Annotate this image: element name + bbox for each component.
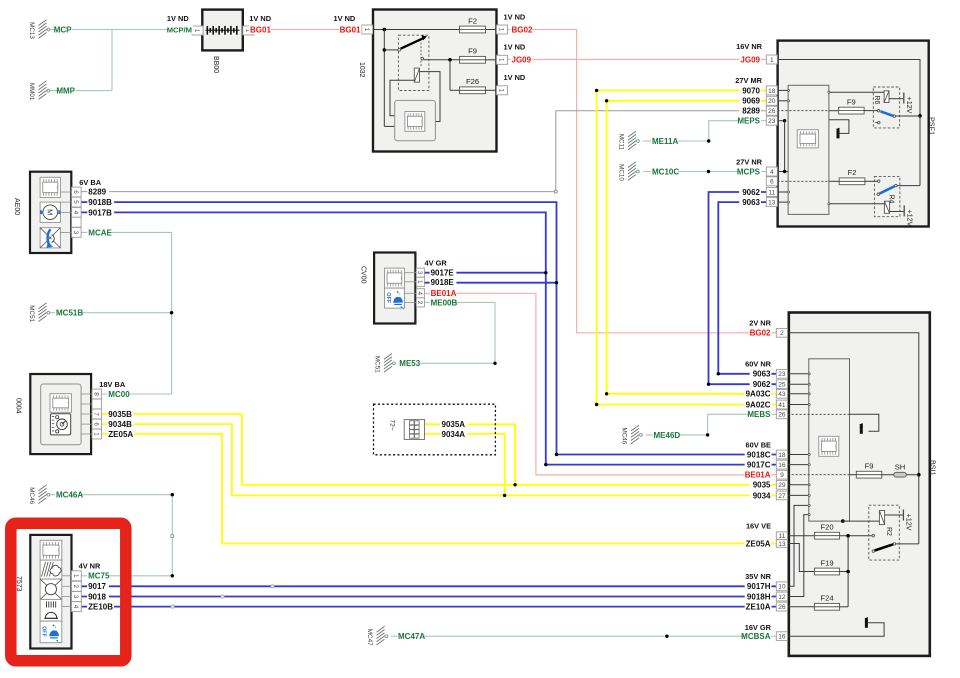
pin stubs AE00 bbox=[60, 192, 71, 232]
svg-text:2V NR: 2V NR bbox=[749, 319, 771, 328]
pins 18,16,9,29,27 BSI1 bbox=[776, 450, 787, 459]
svg-text:9017E: 9017E bbox=[431, 269, 455, 278]
svg-text:60V NR: 60V NR bbox=[745, 360, 772, 369]
svg-text:MC51: MC51 bbox=[374, 356, 381, 373]
wire PSF1 pin1 rail bbox=[777, 60, 922, 186]
svg-text:9062: 9062 bbox=[742, 188, 760, 197]
svg-text:ME00B: ME00B bbox=[431, 298, 458, 307]
wire 9018B / 9018E / 9018C net bbox=[81, 202, 776, 456]
ground MM01 bbox=[28, 81, 50, 101]
net label 8289 (AE00 side) bbox=[87, 187, 109, 196]
svg-text:1V ND: 1V ND bbox=[504, 43, 526, 52]
svg-text:9018: 9018 bbox=[88, 592, 106, 601]
wire 9035B / 9035A / 9035 net to BSI1 pin29 bbox=[101, 414, 776, 486]
svg-text:MC13: MC13 bbox=[28, 22, 35, 39]
tag 1V ND (JG09) bbox=[504, 43, 526, 52]
svg-text:MC10C: MC10C bbox=[652, 167, 679, 176]
svg-text:MC46: MC46 bbox=[28, 487, 35, 504]
wires BSI1 left pins to module bbox=[788, 373, 811, 497]
svg-text:JG09: JG09 bbox=[512, 56, 532, 65]
wire PSF1 pin26 dashed to F9 bbox=[777, 110, 838, 112]
svg-text:MMP: MMP bbox=[56, 87, 75, 96]
svg-text:11: 11 bbox=[768, 189, 775, 196]
wire 8289 AE00 pin6 to PSF1 pin26 bbox=[81, 111, 766, 193]
net label 9035 bbox=[750, 480, 772, 489]
net label ZE05A (0004 side) bbox=[107, 430, 134, 439]
tag 18V BA (0004) bbox=[99, 380, 126, 389]
svg-text:1V ND: 1V ND bbox=[504, 13, 526, 22]
pin 1 PSF1 bbox=[766, 55, 777, 64]
pins 11,13 BSI1 bbox=[776, 532, 787, 540]
net label MC47A bbox=[397, 632, 424, 641]
net label MCP bbox=[56, 25, 73, 34]
wire 9062 PSF1 pin11 to BSI1 pin25 bbox=[707, 192, 777, 386]
ground internal BSI1 lower bbox=[788, 618, 885, 637]
net label ME46D bbox=[653, 431, 680, 440]
body control unit BSI1 bbox=[789, 313, 938, 656]
ground MC10 bbox=[618, 162, 640, 182]
auto-off car symbol 7573 bbox=[40, 621, 62, 643]
svg-text:OFF: OFF bbox=[41, 626, 47, 637]
instrument panel 0004 bbox=[15, 374, 91, 454]
connector body 72 bbox=[404, 420, 424, 440]
svg-text:18V BA: 18V BA bbox=[99, 380, 126, 389]
flap actuator symbol AE00 bbox=[40, 228, 60, 248]
svg-text:1: 1 bbox=[92, 432, 99, 436]
svg-text:MCP: MCP bbox=[54, 25, 72, 34]
svg-text:ZE10A: ZE10A bbox=[746, 603, 771, 612]
net label MCBSA bbox=[745, 632, 772, 641]
fuse F26 bbox=[460, 77, 486, 94]
pin 1 1032 input bbox=[362, 25, 373, 34]
pin 16 BSI1 bbox=[776, 632, 787, 641]
wire F2 output to BG02 pin bbox=[486, 29, 497, 31]
svg-text:9035B: 9035B bbox=[108, 410, 132, 419]
net label MCPS bbox=[739, 167, 761, 176]
wire ME00B / ME53 ground net bbox=[399, 302, 497, 365]
svg-text:MCBSA: MCBSA bbox=[741, 632, 771, 641]
svg-text:F9: F9 bbox=[847, 97, 856, 106]
svg-text:ME46D: ME46D bbox=[654, 431, 681, 440]
svg-text:8: 8 bbox=[92, 392, 99, 396]
net label 9A03C bbox=[745, 389, 772, 398]
pin stubs CV00 bbox=[404, 273, 416, 303]
svg-text:9018E: 9018E bbox=[431, 278, 455, 287]
svg-text:5: 5 bbox=[72, 200, 79, 204]
svg-text:1V ND: 1V ND bbox=[334, 14, 356, 23]
wire MC46A / MC75 ground net bbox=[47, 493, 175, 578]
svg-text:BG02: BG02 bbox=[512, 25, 533, 34]
svg-text:F2: F2 bbox=[468, 16, 477, 25]
net label MC51B bbox=[55, 308, 82, 317]
net label 9A02C bbox=[745, 400, 772, 409]
tag 1V ND (F26 out) bbox=[504, 73, 526, 82]
pins 23,25,43,41,26 BSI1 bbox=[776, 369, 787, 378]
svg-text:16V NR: 16V NR bbox=[736, 42, 763, 51]
net label MC46A bbox=[55, 490, 82, 499]
net label JG09 (PSF1 side) bbox=[739, 55, 761, 64]
pin 1032 F26 output bbox=[497, 86, 508, 95]
net label 9018E bbox=[430, 278, 457, 287]
net label BG02 (BSI1 side) bbox=[750, 328, 772, 337]
svg-text:BB00: BB00 bbox=[212, 56, 219, 73]
svg-text:1: 1 bbox=[498, 89, 505, 93]
interconnector 72 (dashed) bbox=[374, 404, 496, 455]
svg-text:9063: 9063 bbox=[742, 198, 760, 207]
tag 35V NR (BSI1) bbox=[745, 572, 772, 581]
svg-text:MC46A: MC46A bbox=[56, 491, 83, 500]
tag 16V VE (BSI1) bbox=[746, 521, 771, 530]
pin 1032 JG09 output bbox=[497, 55, 508, 64]
pins 3,1,4,2 CV00 bbox=[416, 268, 424, 277]
svg-text:1: 1 bbox=[498, 58, 505, 62]
relay R4 PSF1 bbox=[828, 176, 904, 216]
net label ME11A bbox=[651, 137, 678, 146]
svg-text:BG01: BG01 bbox=[340, 25, 361, 34]
svg-text:6: 6 bbox=[92, 422, 99, 426]
svg-text:16: 16 bbox=[778, 462, 786, 469]
svg-text:18: 18 bbox=[778, 452, 786, 459]
pins 8,7,6,1 0004 bbox=[92, 389, 101, 399]
net label 9017C bbox=[745, 460, 772, 469]
net label MEBS bbox=[750, 410, 772, 419]
svg-text:1V ND: 1V ND bbox=[167, 14, 189, 23]
net label ME00B bbox=[430, 298, 457, 307]
svg-text:+12V: +12V bbox=[905, 209, 914, 226]
svg-text:JG09: JG09 bbox=[740, 56, 760, 65]
ground MC11 bbox=[618, 131, 640, 150]
svg-text:13: 13 bbox=[768, 200, 776, 207]
svg-text:9A03C: 9A03C bbox=[746, 390, 771, 399]
net label BE01A (BSI1 side) bbox=[745, 470, 772, 479]
svg-text:F9: F9 bbox=[468, 47, 477, 56]
tag 1V ND (BG02) bbox=[504, 13, 526, 22]
wire 9018 / 9018H 7573 pin3 to BSI1 pin12 bbox=[81, 595, 776, 598]
ground MC13 bbox=[28, 20, 50, 40]
svg-text:MC47: MC47 bbox=[366, 629, 373, 646]
svg-text:2: 2 bbox=[780, 330, 784, 337]
svg-text:9018B: 9018B bbox=[88, 198, 112, 207]
svg-text:BG02: BG02 bbox=[750, 329, 771, 338]
svg-text:26: 26 bbox=[778, 604, 786, 611]
svg-text:9: 9 bbox=[780, 472, 784, 479]
svg-text:PSF1: PSF1 bbox=[928, 117, 937, 135]
wire fuse output bus BSI1 bbox=[840, 534, 872, 607]
tag 6V BA (AE00) bbox=[79, 178, 101, 187]
svg-text:F2: F2 bbox=[848, 168, 857, 177]
tag 27V NR (PSF1) bbox=[736, 158, 763, 167]
wire BSI1 pin2 rail bbox=[788, 333, 921, 544]
svg-text:MM01: MM01 bbox=[28, 83, 35, 101]
wire BSI1 pin26 to F24 bbox=[788, 606, 815, 608]
wire BE01A CV00 pin4 to BSI1 pin9 bbox=[424, 293, 776, 475]
ground internal BSI1 upper bbox=[860, 424, 863, 434]
pin 1 BB00 left bbox=[192, 26, 203, 35]
svg-text:R2: R2 bbox=[885, 527, 892, 536]
ground internal PSF1 bbox=[829, 120, 849, 139]
wire JG09 1032 to PSF1 pin1 bbox=[508, 59, 767, 61]
svg-text:1: 1 bbox=[193, 29, 200, 33]
svg-text:26: 26 bbox=[778, 412, 786, 419]
tag 16V GR (BSI1) bbox=[745, 623, 772, 632]
wire MCAE / MC51B / MC00 ground net bbox=[47, 232, 174, 394]
shunt SH BSI1 bbox=[882, 463, 919, 478]
svg-text:ZE05A: ZE05A bbox=[108, 430, 133, 439]
net label MC75 bbox=[87, 571, 109, 580]
svg-text:6V BA: 6V BA bbox=[79, 178, 101, 187]
svg-text:9070: 9070 bbox=[742, 86, 760, 95]
wire 9069 / 9A03C PSF1 pin20 to BSI1 pin43 bbox=[605, 99, 776, 395]
svg-text:72–: 72– bbox=[388, 420, 395, 431]
fuse F9 bbox=[460, 47, 486, 64]
wire BSI1 pin10 to module bbox=[788, 504, 811, 586]
svg-text:9034: 9034 bbox=[753, 491, 771, 500]
svg-text:9062: 9062 bbox=[753, 380, 771, 389]
net label ZE10B bbox=[87, 602, 114, 611]
svg-text:MC10: MC10 bbox=[618, 164, 625, 181]
svg-text:1: 1 bbox=[770, 57, 774, 64]
svg-text:2: 2 bbox=[72, 585, 79, 589]
net label ZE05A (BSI1 side) bbox=[745, 539, 772, 548]
svg-text:2: 2 bbox=[416, 301, 423, 305]
svg-text:27V MR: 27V MR bbox=[735, 76, 762, 85]
svg-text:9035A: 9035A bbox=[442, 420, 466, 429]
pin 1032 BG02 output bbox=[497, 25, 508, 34]
svg-text:MC11: MC11 bbox=[618, 134, 625, 151]
net label 9035B bbox=[107, 410, 134, 419]
svg-text:3: 3 bbox=[416, 271, 423, 275]
svg-text:4: 4 bbox=[72, 605, 79, 609]
tag 2V NR (BSI1) bbox=[749, 319, 771, 328]
net label 9034B bbox=[107, 420, 134, 429]
tag 1V ND (BG01 left) bbox=[249, 14, 271, 23]
svg-text:BG01: BG01 bbox=[250, 25, 271, 34]
net label 9017E bbox=[430, 268, 457, 277]
svg-text:1: 1 bbox=[416, 280, 423, 284]
svg-text:1032: 1032 bbox=[358, 62, 365, 78]
wire 9017 / 9017H 7573 pin2 to BSI1 pin10 bbox=[81, 585, 776, 588]
wire PSF1 pin23/pin4 MEPS-MCPS link bbox=[777, 119, 788, 173]
MCU module 1032 bbox=[395, 100, 436, 140]
auto-lighting OFF symbol CV00 bbox=[385, 288, 405, 309]
fuse F2 bbox=[839, 168, 865, 185]
wire 9034B / 9034A / 9034 net to BSI1 pin27 bbox=[101, 424, 776, 497]
net label ZE10A bbox=[745, 602, 772, 611]
net label 9034A bbox=[441, 430, 468, 439]
svg-text:1: 1 bbox=[363, 28, 370, 32]
svg-text:25: 25 bbox=[778, 382, 786, 389]
svg-text:8289: 8289 bbox=[88, 188, 106, 197]
motor M symbol AE00 bbox=[40, 202, 60, 222]
net label 9062 (BSI1 side) bbox=[750, 380, 772, 389]
pins 6,5,4,3 AE00 bbox=[72, 187, 82, 197]
annotation red highlight box around 7573 bbox=[11, 523, 126, 661]
wire PSF1 pin11 bbox=[777, 191, 789, 193]
ground MC46 bbox=[28, 485, 50, 505]
svg-text:9069: 9069 bbox=[742, 97, 760, 106]
+12V supply R6 bbox=[904, 93, 914, 114]
wire relay switch to F9/F26 1032 bbox=[424, 58, 460, 90]
+12V supply R4 bbox=[904, 205, 914, 226]
net label MC00 bbox=[107, 390, 129, 399]
svg-text:R6: R6 bbox=[873, 96, 880, 105]
svg-text:23: 23 bbox=[768, 118, 776, 125]
wire 9063 PSF1 pin13 to BSI1 pin23 bbox=[717, 202, 777, 375]
svg-text:16V GR: 16V GR bbox=[745, 623, 772, 632]
wire MCP/MMP ground feed to battery bbox=[47, 30, 193, 91]
pin 2 BSI1 bbox=[776, 328, 787, 337]
battery unit BB00 bbox=[202, 10, 243, 74]
svg-text:60V BE: 60V BE bbox=[746, 440, 772, 449]
IC symbol 7573 bbox=[40, 540, 62, 560]
svg-text:MC46: MC46 bbox=[621, 428, 628, 445]
net label 9018C bbox=[745, 450, 772, 459]
svg-text:MCP/M: MCP/M bbox=[167, 25, 192, 34]
net label 9062 (PSF1 side) bbox=[739, 188, 761, 197]
net label JG09 (1032 side) bbox=[511, 55, 533, 64]
svg-text:43: 43 bbox=[778, 391, 786, 398]
wire 9017B / 9017E / 9017C net bbox=[81, 212, 776, 466]
svg-text:4: 4 bbox=[416, 292, 423, 296]
svg-text:1: 1 bbox=[72, 574, 79, 578]
svg-text:+12V: +12V bbox=[905, 97, 914, 114]
IC symbol CV00 bbox=[385, 268, 405, 288]
svg-text:MCAE: MCAE bbox=[88, 228, 112, 237]
wire PSF1 pin20 bbox=[777, 100, 789, 102]
svg-text:4V NR: 4V NR bbox=[79, 562, 101, 571]
svg-text:12: 12 bbox=[778, 594, 786, 601]
svg-text:4V GR: 4V GR bbox=[425, 259, 448, 268]
svg-text:27: 27 bbox=[778, 493, 786, 500]
wire PSF1 pin18 bbox=[777, 89, 789, 91]
svg-text:29: 29 bbox=[778, 482, 786, 489]
svg-text:6: 6 bbox=[770, 179, 774, 186]
net label 9035A bbox=[441, 420, 468, 429]
net label BE01A (CV00 side) bbox=[430, 289, 457, 298]
svg-text:M: M bbox=[46, 209, 55, 215]
net label 9069 bbox=[739, 96, 761, 105]
svg-text:35V NR: 35V NR bbox=[745, 572, 772, 581]
net label BG02 (1032 side) bbox=[511, 25, 533, 34]
svg-text:7: 7 bbox=[92, 412, 99, 416]
wire relay coil to MCU 1032 bbox=[390, 72, 440, 122]
net label 9017 bbox=[87, 582, 109, 591]
wire ME11A / MEPS ground net bbox=[643, 121, 766, 143]
wire PSF1 pin13 bbox=[777, 201, 789, 203]
net label 9018H bbox=[745, 592, 772, 601]
svg-text:9017C: 9017C bbox=[747, 461, 771, 470]
svg-text:+12V: +12V bbox=[905, 514, 914, 531]
fuse F9 bbox=[856, 462, 882, 479]
ground MC47 bbox=[366, 626, 388, 646]
relay R6 PSF1 bbox=[828, 87, 903, 128]
svg-text:8289: 8289 bbox=[742, 107, 760, 116]
relay 1032 internal bbox=[384, 35, 429, 90]
wire 1032 internal feed bbox=[373, 28, 460, 127]
tag 16V NR (PSF1 pin1) bbox=[736, 42, 763, 51]
net label 9017B bbox=[87, 208, 114, 217]
svg-text:ME11A: ME11A bbox=[652, 137, 678, 146]
svg-text:41: 41 bbox=[778, 402, 786, 409]
svg-text:MC51B: MC51B bbox=[56, 309, 83, 318]
net label MCP/M bbox=[167, 25, 193, 34]
+12V supply R2 bbox=[903, 510, 913, 531]
net label MCAE bbox=[87, 228, 109, 237]
svg-text:F24: F24 bbox=[820, 594, 833, 603]
IC symbol AE00 bbox=[40, 177, 60, 197]
svg-text:F20: F20 bbox=[820, 523, 833, 532]
net label 9034 bbox=[750, 491, 772, 500]
fuse-relay unit PSF1 bbox=[778, 41, 937, 227]
svg-text:9063: 9063 bbox=[753, 370, 771, 379]
svg-text:4: 4 bbox=[72, 211, 79, 215]
svg-text:F19: F19 bbox=[820, 558, 833, 567]
fuse F9 bbox=[839, 97, 865, 114]
svg-text:F26: F26 bbox=[466, 77, 479, 86]
svg-text:9034B: 9034B bbox=[108, 420, 132, 429]
svg-text:27V NR: 27V NR bbox=[736, 158, 763, 167]
light sensor symbol 7573 bbox=[40, 599, 62, 621]
wire BSI1 pin12 to module bbox=[788, 514, 811, 597]
wire ME46D / MEBS ground net bbox=[646, 414, 776, 436]
pin stubs 7573 bbox=[62, 576, 72, 607]
ground MC51 bbox=[28, 303, 50, 323]
net label MEPS bbox=[739, 116, 761, 125]
svg-text:9018C: 9018C bbox=[747, 450, 771, 459]
module PSF1 internal bbox=[788, 85, 829, 214]
pin 1 BB00 right bbox=[243, 26, 254, 35]
wire ZE05A 0004 pin1 to BSI1 pin13 bbox=[101, 434, 776, 544]
tag 4V NR (7573) bbox=[79, 562, 101, 571]
svg-text:MC00: MC00 bbox=[108, 390, 130, 399]
control unit AE00 bbox=[13, 172, 71, 253]
ground MC46 bbox=[621, 425, 643, 445]
svg-text:BE01A: BE01A bbox=[745, 471, 771, 480]
svg-text:9017: 9017 bbox=[88, 582, 106, 591]
svg-text:9017H: 9017H bbox=[747, 582, 771, 591]
svg-text:MC51: MC51 bbox=[28, 305, 35, 322]
wire F9 output bbox=[486, 59, 497, 61]
tag 4V GR (CV00) bbox=[425, 259, 448, 268]
svg-text:11: 11 bbox=[778, 533, 785, 540]
svg-text:SH: SH bbox=[895, 463, 906, 472]
rain sensor symbol 7573 bbox=[40, 560, 62, 579]
battery cells BB00 bbox=[206, 26, 240, 35]
svg-text:MCPS: MCPS bbox=[737, 167, 761, 176]
svg-text:CV00: CV00 bbox=[360, 266, 367, 284]
ground MC51 bbox=[374, 354, 396, 374]
pins 1,2,3,4 7573 bbox=[72, 571, 82, 581]
tag 27V MR (PSF1) bbox=[735, 76, 762, 85]
svg-text:OFF: OFF bbox=[385, 292, 391, 303]
pin stubs 0004 bbox=[81, 394, 92, 434]
relay R2 BSI1 bbox=[843, 505, 903, 560]
svg-text:26: 26 bbox=[768, 108, 776, 115]
net label BG01 (battery side) bbox=[249, 25, 271, 34]
svg-text:AE00: AE00 bbox=[13, 198, 20, 215]
wire MC47A / MCBSA ground net bbox=[391, 635, 776, 638]
svg-text:MEBS: MEBS bbox=[747, 410, 771, 419]
svg-text:ZE10B: ZE10B bbox=[88, 603, 113, 612]
svg-text:ZE05A: ZE05A bbox=[746, 539, 771, 548]
net label BG01 (1032 side) bbox=[340, 25, 362, 34]
switch R2 contacts bbox=[872, 535, 919, 553]
fuse F2 bbox=[460, 16, 486, 33]
svg-text:20: 20 bbox=[768, 98, 776, 105]
net label 9018 bbox=[87, 592, 109, 601]
svg-text:BSI1: BSI1 bbox=[929, 460, 938, 476]
svg-text:0004: 0004 bbox=[15, 398, 22, 414]
